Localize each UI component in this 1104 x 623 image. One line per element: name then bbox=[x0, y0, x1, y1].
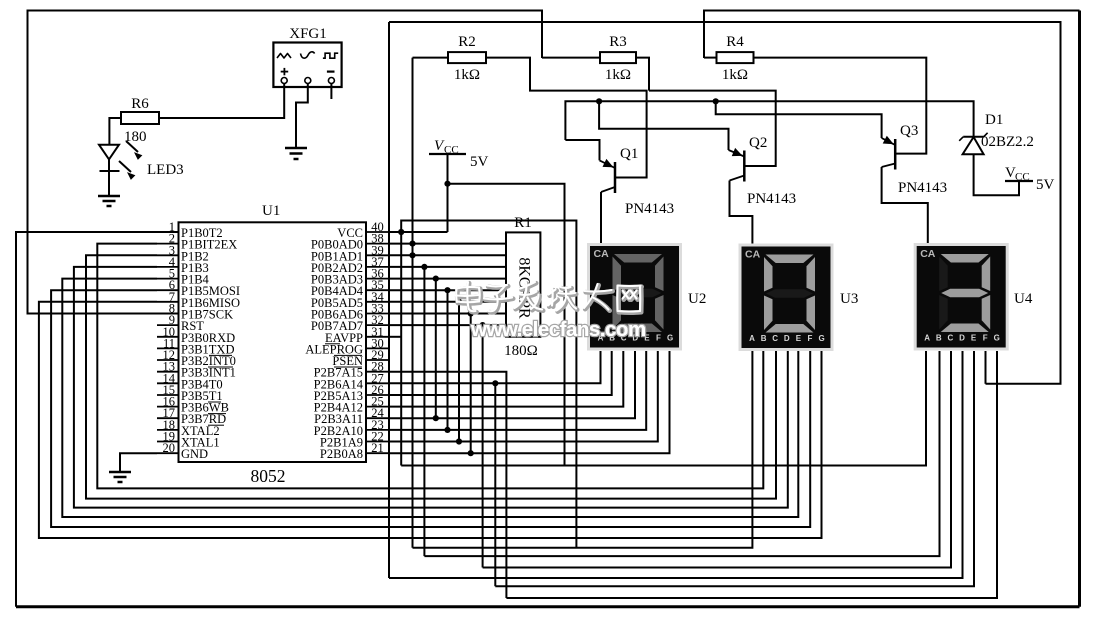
XFG1 terminal 3 bbox=[328, 78, 334, 84]
junction r39 bbox=[409, 252, 415, 258]
svg-text:20: 20 bbox=[163, 441, 176, 455]
watermark elecfans bbox=[456, 282, 646, 341]
wire Q1 emitter feed bbox=[565, 140, 599, 160]
label R1 RPACK8 bbox=[515, 257, 532, 319]
power VCC2 5V bbox=[1005, 165, 1055, 193]
bus L12 to U4 E bbox=[495, 351, 974, 586]
wires rows27-21 to U2 segment pins bbox=[389, 351, 670, 453]
display U4 bbox=[914, 243, 1009, 351]
svg-text:F: F bbox=[808, 334, 813, 343]
XFG1 minus bbox=[327, 70, 335, 72]
display U3 bbox=[739, 244, 834, 352]
svg-text:R4: R4 bbox=[726, 34, 744, 50]
svg-text:02BZ2.2: 02BZ2.2 bbox=[981, 134, 1034, 150]
svg-text:G: G bbox=[667, 334, 673, 343]
junction r36 bbox=[433, 276, 439, 282]
wire stair r33 bbox=[470, 314, 472, 454]
display U2 bbox=[587, 243, 682, 351]
label D1 value bbox=[981, 134, 1034, 150]
label U2 bbox=[688, 291, 706, 307]
label Q2 label bbox=[749, 135, 767, 151]
svg-text:PN4143: PN4143 bbox=[625, 201, 674, 217]
wire Q1 collector to U2 CA bbox=[600, 192, 602, 243]
wire pin8 net top loop to R3 bbox=[28, 11, 543, 314]
svg-text:21: 21 bbox=[371, 441, 384, 455]
wire R4 left bbox=[704, 57, 717, 59]
svg-text:www.elecfans.com: www.elecfans.com bbox=[470, 318, 646, 341]
junction r32 bbox=[480, 322, 486, 328]
wire XFG1 right stub bbox=[330, 84, 332, 100]
label R2 bbox=[458, 34, 476, 50]
svg-text:180Ω: 180Ω bbox=[504, 343, 538, 359]
svg-text:CA: CA bbox=[920, 248, 936, 260]
label Q1 PN4143 bbox=[625, 201, 674, 217]
svg-text:XFG1: XFG1 bbox=[289, 26, 327, 42]
pin ladder U1 right edge bbox=[366, 22, 389, 578]
svg-text:R1: R1 bbox=[514, 215, 532, 231]
zener diode D1 bbox=[959, 133, 987, 154]
label Q3 label bbox=[900, 123, 918, 139]
wire Q3 collector to U4 CA bbox=[882, 167, 928, 243]
junction r34 bbox=[456, 299, 462, 305]
label R4 value bbox=[722, 67, 748, 83]
svg-text:R6: R6 bbox=[131, 96, 149, 112]
svg-text:U4: U4 bbox=[1014, 291, 1033, 307]
resistor R3 bbox=[600, 52, 636, 63]
wire U4-F return loop (y22) bbox=[389, 22, 1061, 384]
wire R3 left bbox=[542, 57, 600, 59]
label Q3 PN4143 bbox=[898, 180, 947, 196]
svg-text:U3: U3 bbox=[840, 291, 858, 307]
wire row28 to L13 bbox=[389, 372, 506, 598]
bus L9 to U4 B bbox=[424, 351, 939, 556]
label LED3 bbox=[147, 162, 184, 178]
pin numbers U1 left 1-20 bbox=[163, 220, 176, 455]
pin labels U1 right side bbox=[305, 226, 363, 461]
svg-text:1kΩ: 1kΩ bbox=[605, 67, 631, 83]
svg-text:E: E bbox=[796, 334, 802, 343]
ground under U1 bbox=[109, 472, 131, 482]
svg-text:8052: 8052 bbox=[251, 466, 286, 486]
svg-text:PN4143: PN4143 bbox=[898, 180, 947, 196]
resistor R4 bbox=[717, 52, 754, 63]
resistor R6 bbox=[121, 112, 159, 124]
svg-text:CA: CA bbox=[745, 249, 761, 261]
svg-text:C: C bbox=[948, 334, 954, 343]
label D1 bbox=[985, 112, 1003, 128]
junction r34 bottom bbox=[456, 438, 462, 444]
transistor Q1 bbox=[600, 160, 616, 193]
XFG1 square glyph bbox=[323, 53, 338, 58]
wire VCC branch right bbox=[448, 184, 565, 466]
wire row31 EAVPP to X1 bbox=[389, 336, 401, 338]
label R2 value bbox=[454, 67, 480, 83]
svg-text:D: D bbox=[959, 334, 965, 343]
wire R6 left bbox=[109, 118, 121, 145]
ground under XFG1 bbox=[285, 148, 307, 159]
svg-text:1kΩ: 1kΩ bbox=[454, 67, 480, 83]
label R4 bbox=[726, 34, 744, 50]
wire Q3 emitter feed bbox=[716, 101, 882, 138]
label 8052 bbox=[251, 466, 286, 486]
junction VCC branch bbox=[444, 181, 450, 187]
bus L10 to U4 C bbox=[483, 351, 951, 568]
wires P1 pins2-7 loops to U3 pins bbox=[39, 244, 822, 538]
svg-text:D1: D1 bbox=[985, 112, 1003, 128]
label R3 bbox=[609, 34, 627, 50]
wire R3 right to Q2 base bbox=[636, 58, 776, 166]
wire stair r38/r39 bbox=[412, 58, 414, 548]
wire X1 up-over bbox=[401, 221, 576, 548]
svg-text:R3: R3 bbox=[609, 34, 627, 50]
svg-text:F: F bbox=[983, 334, 988, 343]
label Q1 bbox=[620, 146, 638, 162]
pin ticks U1 left bbox=[157, 232, 179, 453]
bus L13 to U4 G bbox=[506, 351, 997, 598]
wire stair r36 bbox=[435, 279, 437, 419]
junction r37 bbox=[421, 264, 427, 270]
svg-text:P2B0A8: P2B0A8 bbox=[320, 447, 363, 461]
XFG1 plus bbox=[281, 68, 289, 75]
svg-text:LED3: LED3 bbox=[147, 162, 184, 178]
svg-text:Q2: Q2 bbox=[749, 135, 767, 151]
wire R2 left bbox=[413, 57, 449, 59]
svg-text:G: G bbox=[994, 334, 1000, 343]
svg-text:Q3: Q3 bbox=[900, 123, 918, 139]
wire Q2 collector to U3 CA bbox=[730, 181, 753, 244]
wire LED3 to ground bbox=[108, 171, 110, 196]
wire GND pin20 bbox=[120, 453, 157, 472]
svg-text:B: B bbox=[761, 334, 767, 343]
bus L11 to U4 D bbox=[389, 351, 963, 578]
XFG1 terminal 2 bbox=[305, 78, 311, 84]
label R6 bbox=[131, 96, 149, 112]
resistor R2 bbox=[448, 52, 486, 63]
svg-text:A: A bbox=[924, 334, 930, 343]
label R3 value bbox=[605, 67, 631, 83]
label U1 bbox=[262, 203, 280, 219]
label Q2 PN4143 bbox=[747, 191, 796, 207]
svg-text:A: A bbox=[749, 334, 755, 343]
IC U1 8052 body bbox=[179, 222, 367, 462]
XFG1 sine glyph bbox=[301, 52, 315, 58]
transistor Q3 bbox=[882, 137, 896, 170]
resistor pack R1 body bbox=[506, 232, 540, 336]
svg-text:E: E bbox=[971, 334, 977, 343]
wire emitter bus bbox=[565, 101, 973, 140]
junction emitter Q3 tap bbox=[713, 98, 719, 104]
underlines left labels bbox=[208, 355, 233, 425]
XFG1 terminal 1 bbox=[281, 78, 287, 84]
LED3 arrows bbox=[119, 141, 142, 179]
svg-text:C: C bbox=[772, 334, 778, 343]
junction r33 bottom bbox=[468, 450, 474, 456]
wire D1 anode to VCC2 bbox=[974, 154, 1019, 195]
svg-text:R2: R2 bbox=[458, 34, 476, 50]
junction emitter Q2 tap bbox=[596, 98, 602, 104]
XFG1 triangle-wave glyph bbox=[277, 54, 291, 59]
svg-text:F: F bbox=[656, 334, 661, 343]
LED3 diode bbox=[99, 145, 120, 171]
svg-text:5V: 5V bbox=[1036, 177, 1055, 193]
svg-text:GND: GND bbox=[181, 447, 208, 461]
svg-text:U2: U2 bbox=[688, 291, 706, 307]
pin labels U1 left side bbox=[181, 226, 240, 461]
label R1 value bbox=[504, 343, 538, 359]
junction r38 bbox=[409, 241, 415, 247]
transistor Q2 bbox=[729, 149, 745, 182]
underlines right labels bbox=[325, 344, 362, 367]
svg-text:CA: CA bbox=[594, 248, 610, 260]
junction r36 bottom bbox=[433, 415, 439, 421]
svg-text:CC: CC bbox=[1015, 171, 1030, 183]
label U3 bbox=[840, 291, 858, 307]
wire R4 right to Q3 base bbox=[754, 58, 927, 154]
svg-text:U1: U1 bbox=[262, 203, 280, 219]
wires P0 rows to R1 bbox=[389, 244, 506, 326]
junction r33 bbox=[468, 310, 474, 316]
svg-text:D: D bbox=[784, 334, 790, 343]
wire U4 F pin bbox=[985, 351, 987, 384]
function generator XFG1 box bbox=[273, 43, 341, 88]
wire R2 right to Q1 base bbox=[486, 58, 647, 178]
svg-text:B: B bbox=[936, 334, 942, 343]
junction r35 bottom bbox=[444, 427, 450, 433]
bus L1 to U4 A bbox=[401, 351, 926, 466]
svg-text:5V: 5V bbox=[470, 154, 489, 170]
wire stair r37 bbox=[423, 267, 425, 556]
wire stair r35 bbox=[447, 290, 449, 430]
junction r35 bbox=[444, 287, 450, 293]
wire stair r34 bbox=[458, 302, 460, 442]
label R1 bbox=[514, 215, 532, 231]
wire VCC stem bbox=[447, 154, 449, 232]
svg-text:CC: CC bbox=[444, 144, 459, 156]
ground under LED3 bbox=[98, 196, 120, 206]
svg-text:1kΩ: 1kΩ bbox=[722, 67, 748, 83]
junction r40 bbox=[398, 229, 404, 235]
wire stair r32 bbox=[482, 325, 484, 567]
power VCC near chip bbox=[429, 138, 489, 170]
label U4 bbox=[1014, 291, 1033, 307]
svg-text:G: G bbox=[818, 334, 824, 343]
svg-text:PN4143: PN4143 bbox=[747, 191, 796, 207]
wire stair row27 branch bbox=[494, 383, 496, 586]
bus L8 to U3 A bbox=[413, 351, 753, 548]
wire VCC row bbox=[389, 231, 448, 233]
junction row27 branch bbox=[492, 380, 498, 386]
label 180 bbox=[124, 129, 147, 145]
wire Q2 emitter feed bbox=[599, 101, 728, 150]
label XFG1 bbox=[289, 26, 327, 42]
wire XFG1 mid to ground bbox=[296, 84, 308, 149]
pin numbers U1 right bbox=[371, 220, 384, 455]
svg-text:Q1: Q1 bbox=[620, 146, 638, 162]
wire XFG1 plus to R6 bbox=[159, 84, 284, 119]
